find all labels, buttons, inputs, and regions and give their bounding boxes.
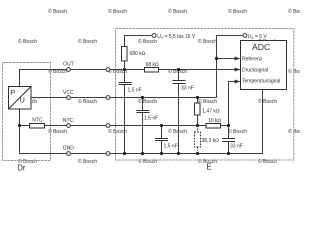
svg-text:Temperatursignal: Temperatursignal [242,79,280,85]
svg-text:OUT: OUT [63,62,74,68]
svg-text:© Bosch: © Bosch [78,158,97,165]
svg-text:10 kΩ: 10 kΩ [208,118,221,124]
svg-text:UA = 5 V: UA = 5 V [248,34,268,40]
svg-text:P: P [10,88,15,97]
svg-text:© Bosch: © Bosch [78,98,97,105]
svg-text:© Bosch: © Bosch [258,98,277,105]
svg-text:© Bosch: © Bosch [138,38,157,45]
svg-text:© Bosch: © Bosch [48,8,67,15]
svg-text:© Bosch: © Bosch [288,8,300,15]
svg-text:© Bosch: © Bosch [18,38,37,45]
svg-text:VCC: VCC [63,90,74,96]
svg-text:GND: GND [63,146,74,152]
svg-text:© Bosch: © Bosch [168,128,187,135]
svg-text:© Bosch: © Bosch [258,158,277,165]
svg-text:Dr: Dr [17,163,26,172]
svg-text:NTC: NTC [32,118,43,124]
svg-text:1,5 nF: 1,5 nF [164,143,178,149]
svg-text:1,5 nF: 1,5 nF [128,87,142,93]
svg-text:33 nF: 33 nF [230,143,243,149]
svg-text:UV = 5,5 bis 16 V: UV = 5,5 bis 16 V [157,34,196,40]
svg-text:ADC: ADC [252,42,270,52]
svg-text:© Bosch: © Bosch [168,8,187,15]
svg-text:© Bosch: © Bosch [138,158,157,165]
svg-text:33 nF: 33 nF [181,85,194,91]
svg-text:© Bosch: © Bosch [228,8,247,15]
svg-text:© Bosch: © Bosch [138,98,157,105]
svg-text:Referenz: Referenz [242,56,263,62]
svg-text:38,3 kΩ: 38,3 kΩ [202,138,220,144]
svg-text:© Bosch: © Bosch [108,8,127,15]
svg-text:1,5 nF: 1,5 nF [144,116,158,122]
svg-text:© Bosch: © Bosch [78,38,97,45]
svg-text:E: E [206,162,211,171]
svg-text:© Bosch: © Bosch [228,128,247,135]
svg-text:© Bosch: © Bosch [198,98,217,105]
svg-text:68 kΩ: 68 kΩ [146,62,159,68]
svg-text:NTC: NTC [63,118,74,124]
svg-text:680 kΩ: 680 kΩ [130,51,146,57]
svg-text:© Bosch: © Bosch [198,38,217,45]
svg-text:U: U [20,96,25,105]
svg-text:Drucksignal: Drucksignal [242,67,268,73]
svg-text:1,47 kΩ: 1,47 kΩ [202,108,220,114]
